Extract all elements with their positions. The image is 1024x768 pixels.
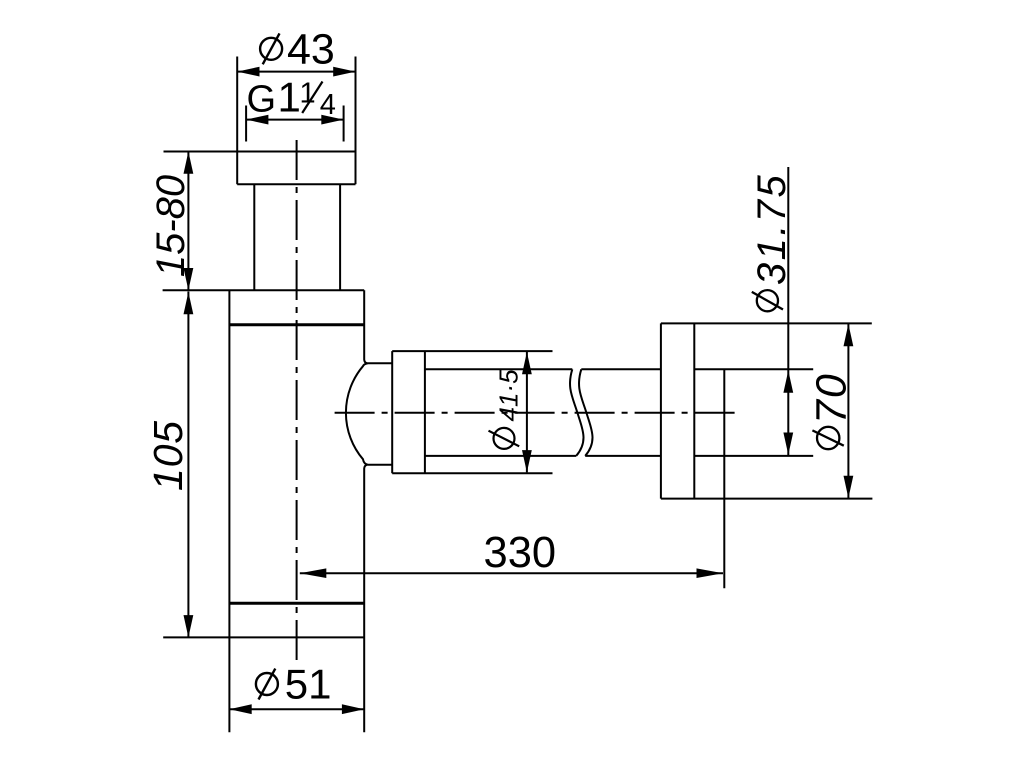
pipe stub walls right of flange with dia31.75 extension — [694, 369, 813, 456]
pipe end vertical with 330 extension — [723, 369, 725, 588]
wall flange — [661, 323, 694, 498]
flange bottom line with dia70 extension — [661, 498, 873, 500]
pipe break symbol left curve — [570, 369, 583, 456]
svg-text:43: 43 — [287, 26, 335, 74]
dim 105 dimension line with arrows — [184, 292, 194, 638]
flange top line with dia70 extension — [661, 322, 872, 324]
nut bottom line with dia41.5 extension — [392, 472, 552, 474]
dia43 extension lines (flange sides extended up) — [237, 57, 355, 185]
svg-text:31.75: 31.75 — [750, 173, 794, 285]
dim dia31.75 leader and arrows — [783, 167, 793, 455]
label dia43 — [260, 26, 335, 74]
svg-text:4: 4 — [320, 89, 336, 121]
svg-text:51: 51 — [285, 660, 332, 707]
vertical centerline of bottle — [296, 140, 298, 660]
body top flange line (with 15-80 extension) — [163, 289, 365, 291]
dia51 dimension line with arrows — [229, 704, 364, 714]
label dia70 — [808, 372, 856, 449]
body bottom line (with 105 extension) — [163, 636, 364, 638]
pipe bottom wall right of break — [585, 455, 661, 457]
label dia51 — [256, 660, 332, 707]
body left side — [228, 290, 230, 732]
nut top line with dia41.5 extension — [392, 350, 552, 352]
svg-text:1: 1 — [278, 73, 301, 120]
body seam lower (thick) — [229, 602, 364, 605]
dim dia41.5 dimension line with arrows — [522, 352, 532, 472]
outlet dome profile — [346, 363, 392, 464]
body right side upper with outlet hook — [364, 290, 367, 363]
outlet nut — [392, 351, 425, 473]
svg-text:70: 70 — [808, 372, 856, 424]
label dia31.75 — [750, 173, 794, 311]
G 1 1/4 dimension line with arrows — [246, 115, 344, 125]
label G 1 1/4 — [247, 73, 336, 121]
pipe bottom wall left of break — [425, 455, 576, 457]
body seam upper (thick) — [229, 323, 364, 326]
G 1 1/4 extension ticks — [246, 106, 344, 142]
tailpiece tube — [254, 184, 340, 290]
svg-text:G: G — [247, 78, 277, 120]
pipe top wall left of break — [425, 368, 572, 370]
dim dia70 dimension line with arrows — [844, 324, 854, 498]
pipe top wall right of break — [581, 368, 661, 370]
pipe break symbol right curve — [579, 369, 592, 456]
horizontal centerline of outlet pipe — [335, 412, 740, 414]
dim 15-80 dimension line with arrows — [184, 152, 194, 291]
svg-text:105: 105 — [145, 420, 191, 491]
label dia41.5 — [489, 369, 524, 449]
svg-text:15-80: 15-80 — [149, 175, 193, 277]
tailpiece flange outline — [164, 152, 356, 185]
body right side lower with outlet hook — [364, 465, 367, 733]
svg-text:330: 330 — [484, 529, 557, 577]
dim 330 dimension line with arrows — [300, 568, 723, 578]
dia43 dimension line with arrows — [237, 67, 355, 77]
